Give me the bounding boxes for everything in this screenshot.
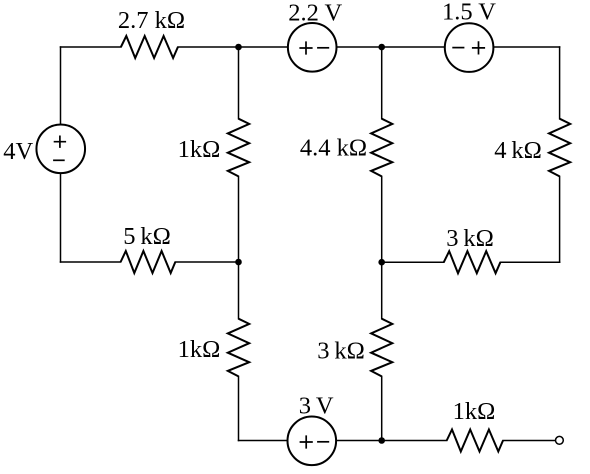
node C junction dot (238,262) — [235, 259, 242, 266]
resistor 3 kOhm (vertical, lower, x=382) — [371, 319, 392, 377]
4V plus sign — [54, 136, 66, 148]
wire bottom row: node E to 1k resistor — [382, 440, 447, 442]
resistor 4 kOhm (vertical, right column) — [549, 119, 570, 177]
svg-text:5 kΩ: 5 kΩ — [123, 223, 171, 250]
wire left column lower: 4V source down to 5k row — [60, 173, 62, 262]
3V plus sign — [300, 435, 313, 448]
svg-text:4 kΩ: 4 kΩ — [494, 137, 542, 164]
wire column x=238 upper: node A down to 1k resistor — [238, 47, 240, 119]
svg-text:4.4 kΩ: 4.4 kΩ — [300, 135, 367, 162]
wire top: 2.2V source to node B — [337, 46, 382, 48]
1.5V minus sign — [452, 47, 464, 49]
voltage source 4V circle — [36, 125, 85, 174]
wire 5k row left: corner to 5k resistor — [61, 261, 121, 263]
wire top-left: left column top corner to 2.7k resistor — [61, 46, 121, 48]
node D junction dot (382,262) — [378, 259, 385, 266]
svg-text:2.2 V: 2.2 V — [288, 0, 342, 26]
node B junction dot (382,47) — [378, 44, 385, 51]
svg-text:1kΩ: 1kΩ — [178, 336, 221, 363]
svg-text:3 kΩ: 3 kΩ — [317, 338, 365, 365]
2.2V plus sign — [299, 41, 312, 54]
svg-text:4V: 4V — [3, 138, 33, 165]
wire 3k row: node D to 3k resistor — [382, 261, 444, 263]
wire top: 1.5V source to top-right corner — [494, 46, 560, 48]
wire 3k row: 3k resistor to right column — [500, 261, 559, 263]
wire bottom row: corner to 3V source — [239, 440, 288, 442]
resistor 1 kOhm (vertical, upper, x=238) — [228, 119, 249, 177]
resistor 2.7 kOhm (top) — [121, 36, 178, 58]
wire bottom row: 1k resistor to open terminal — [503, 440, 556, 442]
resistor 5 kOhm (middle-left row) — [121, 251, 176, 273]
node E junction dot (382,440) — [378, 437, 385, 444]
wire bottom row: 3V source to node E — [336, 440, 382, 442]
wire column x=238: node C down to lower 1k resistor — [238, 262, 240, 319]
svg-text:1.5 V: 1.5 V — [442, 0, 496, 26]
wire 5k row right: 5k resistor to node C — [175, 261, 238, 263]
resistor 1 kOhm (bottom row) — [447, 430, 503, 452]
wire right column: top-right corner down to 4k resistor — [559, 47, 561, 119]
wire column x=238 mid: 1k resistor to node C — [238, 176, 240, 262]
resistor 1 kOhm (vertical, lower, x=238) — [228, 319, 249, 377]
node A junction dot (238,47) — [235, 44, 242, 51]
svg-text:3 V: 3 V — [299, 393, 334, 420]
1.5V plus sign — [472, 41, 485, 54]
wire top: node B to 1.5V source — [382, 46, 445, 48]
svg-text:2.7 kΩ: 2.7 kΩ — [118, 7, 185, 34]
2.2V minus sign — [317, 47, 329, 49]
svg-text:1kΩ: 1kΩ — [178, 136, 221, 163]
wire column x=382: node D down to 3k resistor — [381, 262, 383, 319]
wire top: 2.7k resistor to 2.2V source — [178, 46, 288, 48]
resistor 3 kOhm (horizontal, right row) — [444, 251, 501, 273]
wire column x=382 mid: 4.4k resistor to node D — [381, 176, 383, 262]
3V minus sign — [317, 441, 329, 443]
open output terminal — [556, 436, 564, 444]
svg-text:1kΩ: 1kΩ — [453, 398, 496, 425]
wire column x=382 upper: node B down to 4.4k resistor — [381, 47, 383, 119]
voltage source 3V circle — [288, 417, 337, 466]
voltage source 2.2V circle — [288, 23, 337, 72]
wire column x=238 bottom: lower 1k resistor to bottom row corner — [238, 376, 240, 440]
wire right column: 4k resistor down to 3k row corner — [559, 176, 561, 262]
wire column x=382 bottom: 3k resistor to node E — [381, 376, 383, 440]
wire left column upper: corner down to 4V source — [60, 47, 62, 125]
svg-text:3 kΩ: 3 kΩ — [446, 225, 494, 252]
voltage source 1.5V circle — [445, 23, 494, 72]
resistor 4.4 kOhm (vertical, x=382) — [371, 119, 392, 177]
4V minus sign — [53, 159, 65, 161]
